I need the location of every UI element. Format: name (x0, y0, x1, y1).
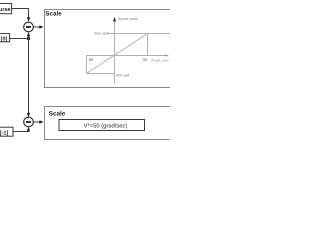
block [0] (cut off at left edge) (0, 34, 10, 43)
block [-1] (cut off at left edge) (0, 127, 13, 136)
arrowhead into bottom Scale box (39, 120, 43, 124)
wire from Course to sum S1 (12, 9, 29, 18)
sum junction S2 (24, 117, 34, 127)
arrowhead into S1 top (27, 17, 30, 21)
junction node dot (27, 37, 30, 40)
v-axis of graph (114, 20, 116, 84)
arrowhead into Scale box (39, 25, 43, 29)
arrowhead into S1 bottom (27, 32, 30, 36)
min level line (87, 73, 115, 75)
svg-text:min spd: min spd (116, 73, 129, 77)
svg-text:Scale: Scale (45, 11, 62, 18)
h-axis of graph (87, 55, 167, 57)
h-axis arrowhead (166, 54, 169, 57)
diagonal of saturation curve (87, 34, 148, 74)
svg-text:max spd: max spd (94, 31, 108, 35)
svg-text:Course: Course (0, 7, 11, 13)
big Scale box (45, 10, 174, 88)
wire junction down to sum S2 (28, 39, 30, 114)
svg-text:Scale: Scale (49, 111, 66, 118)
svg-text:[0]: [0] (1, 36, 8, 42)
left reference line at -90 (86, 56, 88, 74)
arrowhead into S2 top (27, 113, 30, 117)
svg-text:[-1]: [-1] (0, 130, 8, 136)
svg-text:Angle yaw: Angle yaw (151, 59, 169, 63)
svg-text:90: 90 (143, 58, 147, 62)
sum junction S1 (24, 22, 34, 32)
wire junction up into S1 (28, 36, 30, 38)
v-axis arrowhead (113, 17, 116, 22)
svg-text:-90: -90 (88, 58, 94, 62)
bottom Scale box (45, 107, 174, 140)
right reference line at 90 (147, 34, 149, 56)
svg-text:V*=50 (grad/sec): V*=50 (grad/sec) (84, 122, 128, 129)
wire [0] to junction (10, 38, 29, 40)
wire S1 output to Scale box (33, 26, 40, 28)
inner constant block V*=50 (59, 120, 145, 131)
max level line (107, 33, 171, 35)
arrowhead into S2 bottom (27, 127, 30, 131)
block Course (cut off at left edge) (0, 4, 12, 14)
wire [-1] up into S2 (13, 130, 29, 133)
svg-text:Speed rotate: Speed rotate (118, 17, 138, 21)
wire S2 output to bottom Scale box (33, 121, 40, 123)
